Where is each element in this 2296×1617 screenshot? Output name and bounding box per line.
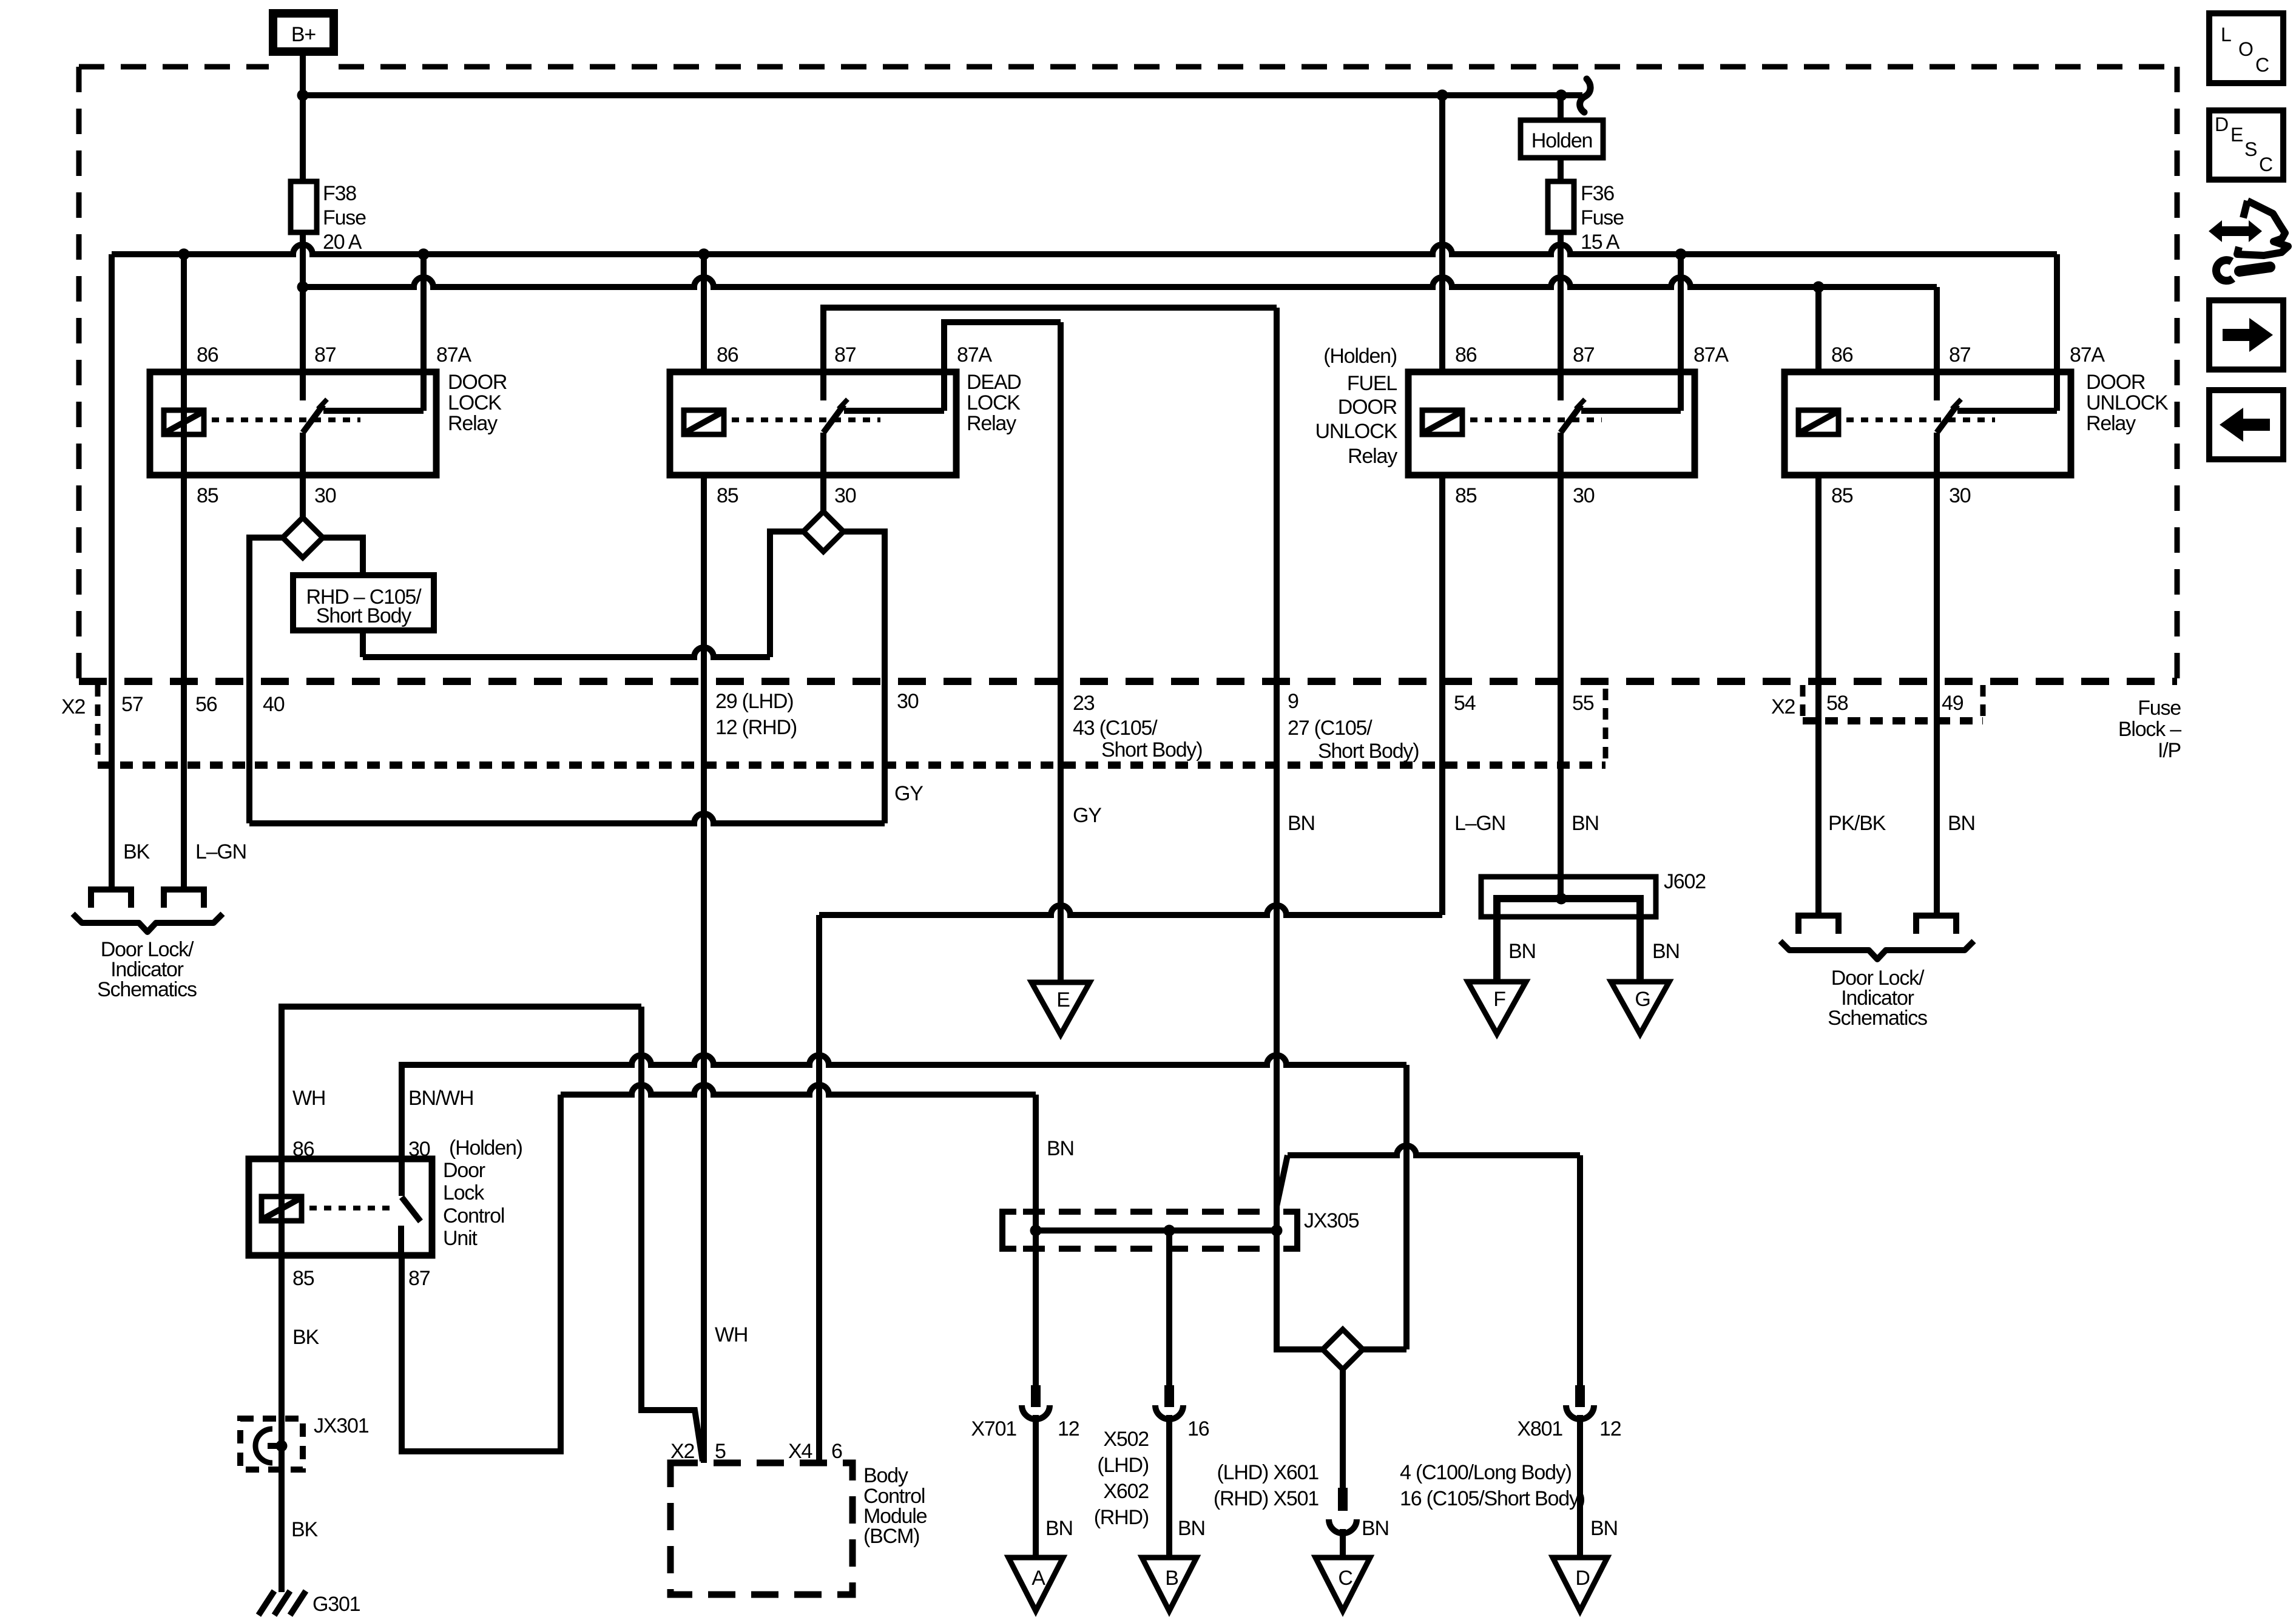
continuation squiggle at bus end (1580, 79, 1590, 112)
svg-text:X502: X502 (1103, 1428, 1149, 1451)
svg-text:87: 87 (408, 1267, 430, 1290)
svg-text:BN: BN (1362, 1517, 1389, 1540)
terminal BN right (1916, 916, 1956, 934)
svg-text:Fuse: Fuse (2138, 697, 2181, 720)
svg-text:85: 85 (717, 484, 738, 507)
wire relay4-87A (2054, 254, 2060, 411)
svg-text:J602: J602 (1664, 870, 1706, 893)
svg-text:Relay: Relay (967, 412, 1016, 435)
node F38 to line B (297, 282, 309, 293)
svg-text:85: 85 (1455, 484, 1477, 507)
svg-text:6: 6 (831, 1440, 842, 1463)
svg-text:WH: WH (715, 1323, 748, 1346)
svg-text:30: 30 (897, 690, 919, 713)
wire diamond1 left branch to pin 40 (249, 538, 283, 823)
node bus to relay3-86 (1437, 90, 1448, 101)
triangle E (1032, 982, 1090, 1035)
svg-text:27 (C105/: 27 (C105/ (1288, 717, 1373, 740)
node line A relay2-86 (698, 249, 710, 260)
svg-text:BN: BN (1047, 1137, 1074, 1160)
sidebar LOC box (2209, 13, 2283, 83)
svg-text:DEAD: DEAD (967, 371, 1021, 394)
svg-text:(LHD) X601: (LHD) X601 (1217, 1461, 1319, 1484)
wire relay4-87 (1934, 287, 1940, 400)
connector X801 on wire D (1517, 1385, 1621, 1558)
svg-text:Body: Body (863, 1464, 908, 1487)
svg-text:PK/BK: PK/BK (1828, 812, 1886, 835)
svg-text:87A: 87A (2070, 343, 2105, 366)
terminal L-GN left (164, 890, 204, 908)
wire relay4-85 down to pin 58 (1815, 475, 1822, 913)
svg-text:15 A: 15 A (1581, 231, 1620, 254)
svg-text:30: 30 (1573, 484, 1595, 507)
svg-text:56: 56 (195, 693, 217, 716)
node line A relay3-87A (1675, 249, 1687, 260)
node bus to Holden fuse (1556, 90, 1567, 101)
svg-text:E: E (2230, 124, 2243, 146)
wire fuse F36 output to relay3-87 (1558, 232, 1564, 400)
svg-text:30: 30 (834, 484, 856, 507)
connector X701 on wire A (971, 1385, 1079, 1558)
svg-text:X2: X2 (61, 695, 85, 718)
svg-text:Relay: Relay (448, 412, 498, 435)
svg-text:58: 58 (1826, 692, 1848, 715)
wire WH down to BCM corner (641, 1007, 703, 1461)
wire relay2-87A corner to pin 23 (944, 322, 1061, 411)
svg-text:30: 30 (314, 484, 336, 507)
top B+ bus wire (303, 92, 1582, 98)
JX301 junction (240, 1419, 303, 1470)
wire pin 23 down to E (1058, 322, 1064, 982)
svg-text:E: E (1056, 988, 1070, 1011)
wire relay2-86 (701, 254, 707, 372)
svg-text:Unit: Unit (443, 1227, 478, 1250)
svg-text:Lock: Lock (443, 1181, 485, 1204)
svg-text:UNLOCK: UNLOCK (2086, 391, 2169, 414)
wire relay2-30 to diamond2 (820, 475, 826, 511)
wire relay1-30 to splice diamond (300, 475, 306, 518)
svg-text:UNLOCK: UNLOCK (1315, 420, 1398, 443)
wire diamond1 right branch to RHD box (323, 538, 363, 575)
wire option link at y1357 (249, 814, 885, 823)
svg-text:BN: BN (1178, 1517, 1205, 1540)
wire BN/WH bus C control-30 to diamond3 riser (402, 1055, 1406, 1159)
svg-text:X801: X801 (1517, 1417, 1562, 1440)
svg-text:BK: BK (292, 1326, 319, 1349)
connector row dotted bottom line (98, 761, 1606, 769)
svg-text:F36: F36 (1581, 182, 1614, 205)
svg-text:Block –: Block – (2118, 718, 2181, 741)
svg-text:G301: G301 (312, 1593, 360, 1616)
wire relay3-87A (1678, 254, 1684, 411)
svg-text:Fuse: Fuse (1581, 206, 1624, 229)
svg-text:(RHD) X501: (RHD) X501 (1214, 1487, 1319, 1510)
J602 junction block (1481, 877, 1656, 917)
wire relay2-87 up-over corner (823, 308, 1277, 400)
svg-text:B: B (1165, 1567, 1178, 1590)
node line A relay1-86 (178, 249, 190, 260)
connector X601/X501 on wire C (1214, 1461, 1585, 1558)
relay U4 DOOR UNLOCK Relay (1784, 343, 2169, 507)
wire diamond2 right branch down pin 30 (843, 532, 885, 823)
connector X502/X602 on wire B (1094, 1385, 1209, 1558)
svg-text:9: 9 (1288, 690, 1298, 713)
wire diamond3 down to C connector (1340, 1369, 1346, 1488)
svg-text:BN: BN (1948, 812, 1975, 835)
node B+ bus junction (297, 90, 309, 101)
wire relay2-87 net down to diamond3 (1277, 308, 1323, 1349)
node line B relay4-86 (1813, 282, 1825, 293)
svg-text:(Holden): (Holden) (449, 1136, 522, 1160)
ground G301 (258, 1591, 306, 1615)
svg-text:F: F (1493, 988, 1505, 1011)
svg-text:87A: 87A (1693, 343, 1729, 366)
svg-text:5: 5 (715, 1440, 726, 1463)
svg-text:57: 57 (121, 693, 143, 716)
svg-text:DOOR: DOOR (448, 371, 507, 394)
svg-text:BN/WH: BN/WH (408, 1087, 473, 1110)
wire RHD box down and right (360, 630, 366, 657)
wire relay3-85 down to pin 54 (1439, 475, 1445, 915)
svg-text:L: L (2221, 24, 2232, 46)
wire control-87 loop (402, 1095, 561, 1451)
svg-text:B+: B+ (291, 23, 316, 46)
svg-text:Fuse: Fuse (323, 206, 366, 229)
wire L-GN link relay3-85 to BCM X4 (819, 905, 1442, 915)
svg-text:12: 12 (1058, 1417, 1079, 1440)
triangle F (1468, 982, 1526, 1034)
svg-text:4 (C100/Long Body): 4 (C100/Long Body) (1400, 1461, 1572, 1484)
node line A relay1-87A (418, 249, 430, 260)
brace left group (73, 914, 223, 932)
svg-text:87: 87 (1573, 343, 1595, 366)
X2 left cell dashed verticals (95, 685, 101, 761)
svg-text:30: 30 (1949, 484, 1971, 507)
svg-text:87: 87 (1949, 343, 1971, 366)
svg-text:Short Body): Short Body) (1101, 738, 1202, 761)
bus line A (112, 245, 2057, 254)
wire Holden box to fuse F36 (1558, 158, 1564, 181)
splice option diamond 3 (1363, 1346, 1406, 1352)
svg-text:86: 86 (1831, 343, 1853, 366)
splice option diamond 2 (803, 511, 843, 552)
svg-text:Holden: Holden (1531, 129, 1593, 152)
svg-text:F38: F38 (323, 182, 356, 205)
fuse F38 20A (291, 181, 317, 232)
bus line B (303, 277, 1937, 287)
wire BN bus D control-87 loop to A riser (561, 1085, 1036, 1095)
svg-text:BN: BN (1572, 812, 1599, 835)
wire relay1-87A (420, 254, 427, 411)
svg-text:55: 55 (1572, 692, 1594, 715)
svg-text:30: 30 (408, 1138, 430, 1161)
Door Lock Control Unit (249, 1066, 522, 1592)
svg-text:(RHD): (RHD) (1094, 1506, 1149, 1529)
svg-text:Schematics: Schematics (97, 978, 197, 1001)
sidebar DESC box (2209, 110, 2283, 180)
relay U3 FUEL DOOR UNLOCK Relay (Holden) (1315, 343, 1729, 507)
svg-text:29 (LHD): 29 (LHD) (715, 690, 793, 713)
svg-text:WH: WH (292, 1087, 325, 1110)
svg-text:BN: BN (1288, 812, 1315, 835)
wire bus C riser down to diamond3 (1403, 1065, 1410, 1349)
svg-text:Schematics: Schematics (1828, 1007, 1927, 1030)
svg-text:(Holden): (Holden) (1323, 345, 1397, 368)
triangle D (1553, 1558, 1607, 1611)
wire riser to diamond2 (770, 532, 803, 657)
B+ box (273, 13, 334, 52)
wire option link at y1083 (363, 647, 770, 657)
svg-text:85: 85 (1831, 484, 1853, 507)
Body Control Module dashed box (670, 1463, 853, 1595)
relay U1 DOOR LOCK Relay (150, 288, 507, 507)
triangle B (1142, 1558, 1197, 1611)
svg-text:BN: BN (1508, 940, 1536, 963)
wire BK net left vertical (109, 254, 115, 887)
svg-text:(LHD): (LHD) (1097, 1454, 1149, 1477)
svg-text:C: C (1338, 1567, 1352, 1590)
wire relay3-30 down to J602 (1558, 433, 1564, 899)
svg-text:12 (RHD): 12 (RHD) (715, 716, 797, 739)
sidebar next-page arrow box (2209, 300, 2283, 370)
sidebar prev-page arrow box (2209, 390, 2283, 459)
wire relay4-86 (1815, 287, 1822, 372)
brace right group (1780, 941, 1974, 959)
wire relay4-30 down to pin 49 (1934, 433, 1940, 913)
svg-text:Relay: Relay (1348, 445, 1397, 468)
svg-text:BN: BN (1590, 1517, 1618, 1540)
svg-text:X2: X2 (670, 1440, 694, 1463)
svg-text:86: 86 (717, 343, 738, 366)
svg-text:JX305: JX305 (1304, 1209, 1359, 1232)
svg-text:L–GN: L–GN (1454, 812, 1505, 835)
svg-text:D: D (2215, 113, 2229, 135)
terminal PK/BK right (1798, 916, 1838, 934)
wire jog to D link (1277, 1155, 1288, 1206)
RHD - C105/Short Body option box (293, 575, 434, 630)
svg-text:BK: BK (291, 1518, 318, 1541)
svg-text:87: 87 (314, 343, 336, 366)
svg-text:Short Body): Short Body) (1318, 740, 1419, 763)
svg-text:A: A (1032, 1567, 1045, 1590)
svg-text:16 (C105/Short Body): 16 (C105/Short Body) (1400, 1487, 1585, 1510)
triangle C (1315, 1558, 1370, 1611)
svg-text:GY: GY (1073, 804, 1101, 827)
svg-text:49: 49 (1942, 692, 1963, 715)
svg-text:O: O (2238, 38, 2254, 60)
svg-text:X4: X4 (788, 1440, 812, 1463)
svg-text:12: 12 (1599, 1417, 1621, 1440)
svg-text:C: C (2259, 154, 2273, 175)
svg-text:54: 54 (1454, 692, 1476, 715)
terminal BK left (91, 890, 131, 908)
svg-text:C: C (2255, 54, 2269, 76)
svg-text:DOOR: DOOR (2086, 371, 2145, 394)
wire JX305 internal bar (1036, 1227, 1277, 1234)
svg-text:GY: GY (894, 782, 923, 805)
svg-text:87A: 87A (436, 343, 471, 366)
wire B+ down to fuse F38 (300, 52, 306, 181)
svg-text:LOCK: LOCK (967, 391, 1021, 414)
triangle A (1008, 1558, 1063, 1611)
triangle G (1611, 982, 1669, 1034)
svg-text:86: 86 (1455, 343, 1477, 366)
svg-text:(BCM): (BCM) (863, 1525, 919, 1548)
svg-text:23: 23 (1073, 692, 1095, 715)
svg-text:X701: X701 (971, 1417, 1016, 1440)
svg-text:Relay: Relay (2086, 412, 2136, 435)
wire D vertical (1577, 1155, 1583, 1385)
wire relay2-85 down to BCM pin 5 (701, 475, 707, 1463)
wire L-GN vertical to BCM pin X4/6 (816, 915, 822, 1463)
wire fuse F38 output (300, 232, 306, 400)
Holden box (1521, 120, 1603, 158)
wire A-net vertical down through JX305 (1033, 1095, 1039, 1385)
svg-text:LOCK: LOCK (448, 391, 502, 414)
svg-text:Door: Door (443, 1159, 485, 1182)
svg-text:85: 85 (292, 1267, 314, 1290)
svg-text:L–GN: L–GN (195, 840, 246, 863)
svg-text:X602: X602 (1103, 1480, 1149, 1503)
svg-text:43 (C105/: 43 (C105/ (1073, 717, 1158, 740)
svg-text:X2: X2 (1771, 695, 1795, 718)
wire B riser from JX305 bar (1166, 1230, 1172, 1385)
svg-text:40: 40 (263, 693, 285, 716)
svg-text:16: 16 (1187, 1417, 1209, 1440)
wire relay3-86 (1439, 95, 1445, 372)
svg-text:86: 86 (292, 1138, 314, 1161)
svg-text:BN: BN (1045, 1517, 1073, 1540)
splice option diamond 1 (283, 518, 323, 558)
wire relay1 86/85 vertical (181, 254, 187, 887)
svg-text:85: 85 (197, 484, 218, 507)
svg-text:JX301: JX301 (314, 1414, 369, 1437)
svg-text:87A: 87A (957, 343, 992, 366)
svg-text:Control: Control (443, 1204, 504, 1227)
svg-text:20 A: 20 A (323, 231, 362, 254)
svg-text:DOOR: DOOR (1338, 396, 1397, 419)
wire link to D connector (1288, 1146, 1580, 1155)
svg-text:I/P: I/P (2158, 739, 2181, 762)
svg-text:86: 86 (197, 343, 218, 366)
X2 right cell (pins 58/49) (1800, 685, 1806, 717)
connector row dashed line (79, 678, 2177, 685)
svg-text:G: G (1635, 988, 1650, 1011)
svg-text:FUEL: FUEL (1347, 372, 1397, 395)
JX305 junction strip (1002, 1212, 1016, 1249)
svg-text:Short Body: Short Body (316, 604, 411, 627)
wire WH link control-86 up-over (282, 1007, 641, 1159)
relay U2 DEAD LOCK Relay (670, 343, 1021, 507)
svg-text:BK: BK (123, 840, 150, 863)
svg-text:S: S (2244, 138, 2257, 160)
fuse block dashed outline (Fuse Block - I/P) (79, 67, 2177, 678)
svg-text:BN: BN (1652, 940, 1680, 963)
svg-text:87: 87 (834, 343, 856, 366)
fuse F36 15A (1548, 181, 1574, 232)
wire bus to Holden box (1558, 95, 1564, 120)
sidebar hand-wrench icon (2209, 201, 2288, 281)
svg-text:D: D (1575, 1567, 1589, 1590)
